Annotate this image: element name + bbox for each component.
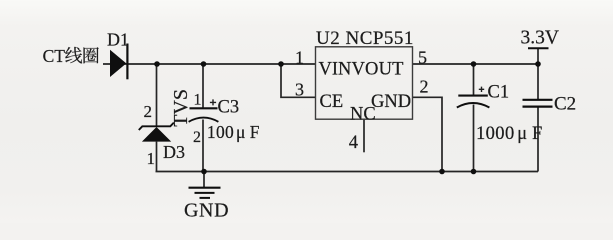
svg-text:1: 1 <box>295 48 304 68</box>
svg-text:GND: GND <box>184 200 229 222</box>
svg-text:C1: C1 <box>488 83 510 103</box>
svg-text:1: 1 <box>147 149 156 168</box>
svg-text:C2: C2 <box>554 94 576 115</box>
svg-text:D1: D1 <box>107 30 129 50</box>
svg-text:4: 4 <box>349 133 358 153</box>
svg-text:2: 2 <box>420 77 429 97</box>
svg-text:D3: D3 <box>163 142 185 162</box>
svg-text:NC: NC <box>350 104 376 124</box>
svg-text:CT: CT <box>43 46 66 66</box>
svg-text:100μF: 100μF <box>207 122 260 142</box>
svg-text:CE: CE <box>320 92 344 112</box>
svg-text:3.3V: 3.3V <box>521 28 559 49</box>
svg-text:GND: GND <box>371 92 411 112</box>
svg-text:1: 1 <box>194 92 202 109</box>
svg-text:2: 2 <box>144 102 153 121</box>
svg-text:5: 5 <box>418 48 427 68</box>
svg-text:TVS: TVS <box>170 89 192 127</box>
svg-text:3: 3 <box>295 80 304 100</box>
svg-text:VOUT: VOUT <box>352 59 404 79</box>
svg-text:U2 NCP551: U2 NCP551 <box>316 28 414 49</box>
svg-text:VIN: VIN <box>319 59 352 79</box>
svg-text:1000μF: 1000μF <box>476 124 543 144</box>
svg-text:C3: C3 <box>218 98 240 118</box>
svg-text:2: 2 <box>193 129 201 146</box>
